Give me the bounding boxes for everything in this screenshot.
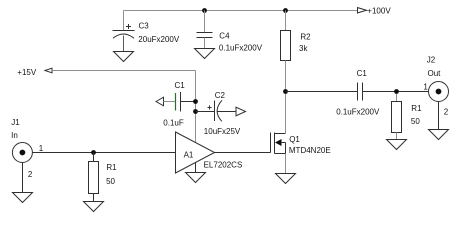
C1 output reference label [357, 69, 368, 78]
svg-text:1: 1 [39, 144, 44, 153]
ground under C3 [114, 52, 134, 62]
svg-text:J1: J1 [11, 118, 20, 127]
svg-text:20uFx200V: 20uFx200V [138, 35, 180, 44]
junction drain output node [283, 89, 288, 94]
svg-text:C1: C1 [175, 81, 186, 90]
svg-text:50: 50 [411, 117, 420, 126]
ground under Q1 [276, 174, 296, 184]
junction R1 output node [394, 89, 399, 94]
wire Q1 drain to output node [285, 94, 287, 134]
R1 output value label [411, 117, 420, 126]
J1 pin 2 label [28, 170, 33, 179]
resistor R2 [281, 31, 291, 61]
J1 pin 1 label [39, 144, 44, 153]
resistor R1 input [89, 162, 99, 194]
J1 name label In [11, 131, 18, 140]
C2 value label [204, 127, 241, 136]
svg-text:R1: R1 [106, 163, 117, 172]
op-amp A1 [176, 132, 215, 173]
svg-text:+100V: +100V [367, 7, 391, 16]
wire output node to C1 [286, 91, 358, 93]
J2 reference label [427, 56, 436, 65]
svg-text:C2: C2 [215, 91, 226, 100]
ground under C4 [195, 49, 215, 59]
junction R2 on rail [283, 8, 288, 13]
wire rail to R2 [285, 11, 287, 31]
wire +15V vertical to A1 [195, 71, 197, 144]
node +100V arrow [358, 8, 367, 13]
resistor R1 output [392, 102, 402, 133]
ground under R1 input [84, 202, 104, 212]
net label +15V [17, 68, 37, 77]
Q1 part label MTD4N20E [289, 146, 331, 155]
C1 bypass reference label [175, 81, 186, 90]
net label +100V [367, 7, 391, 16]
svg-text:3k: 3k [299, 44, 308, 53]
wire C1 to J2 [363, 91, 429, 93]
capacitor C1 output [358, 83, 363, 101]
node +15V arrow [45, 68, 52, 73]
ground under A1 [186, 173, 206, 183]
R2 reference label [300, 33, 311, 42]
svg-text:2: 2 [444, 107, 449, 116]
connector J1 [12, 143, 32, 163]
wire J1 to A1 input [32, 152, 175, 154]
J2 name label Out [428, 69, 442, 78]
svg-text:2: 2 [28, 170, 33, 179]
svg-text:10uFx25V: 10uFx25V [204, 127, 241, 136]
svg-text:EL7202CS: EL7202CS [204, 161, 243, 170]
C3 reference label [139, 21, 150, 30]
ground under R1 output [387, 140, 407, 150]
svg-text:Q1: Q1 [289, 135, 300, 144]
A1 part label EL7202CS [204, 161, 243, 170]
C1 output value label [336, 108, 380, 117]
svg-text:1: 1 [423, 82, 428, 91]
svg-text:C1: C1 [357, 69, 368, 78]
R1 input reference label [106, 163, 117, 172]
svg-text:MTD4N20E: MTD4N20E [289, 146, 331, 155]
Q1 reference label [289, 135, 300, 144]
svg-text:0.1uFx200V: 0.1uFx200V [336, 108, 380, 117]
junction C1 on +15V line [193, 99, 198, 104]
svg-text:Out: Out [428, 69, 442, 78]
R2 value label [299, 44, 308, 53]
J1 reference label [11, 118, 20, 127]
junction C2 on +15V line [193, 109, 198, 114]
wire Q1 source to ground [285, 154, 287, 174]
wire R1 to ground [93, 194, 95, 202]
J2 pin 1 label [423, 82, 428, 91]
svg-text:C3: C3 [139, 21, 150, 30]
svg-text:R1: R1 [411, 104, 422, 113]
wire node to R1 [93, 153, 95, 162]
svg-text:In: In [11, 131, 18, 140]
junction R1 input node [91, 150, 96, 155]
svg-text:+15V: +15V [17, 68, 37, 77]
ground under J2 [429, 130, 449, 140]
junction C4 on rail [202, 8, 207, 13]
transistor Q1 [271, 133, 286, 154]
C1 bypass value label [163, 118, 184, 127]
C2 reference label [215, 91, 226, 100]
wire node to R1 output [396, 94, 398, 102]
C3 value label [138, 35, 180, 44]
C4 reference label [219, 32, 230, 41]
wire A1 ground stub [195, 162, 197, 173]
A1 reference label [184, 151, 194, 160]
connector J2 [429, 82, 449, 102]
svg-text:A1: A1 [184, 151, 194, 160]
wire R1 output to ground [396, 133, 398, 140]
capacitor C3 [113, 11, 135, 52]
wire +15V horizontal [52, 70, 196, 72]
svg-text:50: 50 [106, 177, 115, 186]
svg-text:R2: R2 [300, 33, 311, 42]
wire J2 pin2 to ground [438, 101, 440, 129]
wire top +100V rail [124, 10, 358, 12]
capacitor C4 [197, 11, 213, 49]
R1 input value label [106, 177, 115, 186]
svg-text:0.1uFx200V: 0.1uFx200V [219, 44, 263, 53]
svg-text:C4: C4 [219, 32, 230, 41]
wire A1 output to Q1 gate [215, 152, 271, 154]
C4 value label [219, 44, 263, 53]
wire R2 to drain node [285, 61, 287, 92]
svg-text:0.1uF: 0.1uF [163, 118, 184, 127]
svg-text:J2: J2 [427, 56, 436, 65]
R1 output reference label [411, 104, 422, 113]
capacitor C2 [196, 100, 246, 121]
capacitor C1 bypass [156, 92, 196, 112]
J2 pin 2 label [444, 107, 449, 116]
wire J1 pin2 to ground [22, 162, 24, 192]
ground under J1 [13, 193, 33, 203]
